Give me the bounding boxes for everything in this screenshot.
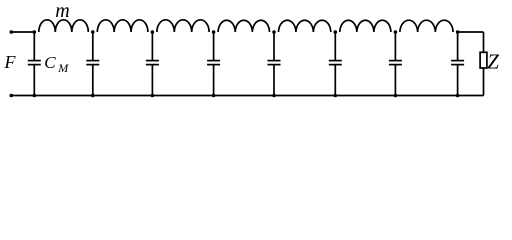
inductor L5 xyxy=(279,20,331,32)
svg-text:C: C xyxy=(44,53,56,72)
svg-text:m: m xyxy=(55,0,69,22)
capacitor C2 branch xyxy=(86,32,99,96)
inductor L2 xyxy=(97,20,148,32)
junction node 3 (top) xyxy=(151,30,155,34)
junction node 1 (top) xyxy=(33,30,37,34)
junction node 1 (bottom) xyxy=(33,94,37,98)
junction node 8 (bottom) xyxy=(456,94,460,98)
junction node 5 (top) xyxy=(272,30,276,34)
capacitor C_M branch xyxy=(28,32,41,96)
wire (Z branch upper) xyxy=(483,32,485,52)
capacitor C3 branch xyxy=(146,32,159,96)
wire (Z branch lower) xyxy=(483,68,485,96)
junction node 5 (bottom) xyxy=(272,94,276,98)
capacitor C6 branch xyxy=(329,32,342,96)
inductor L7 xyxy=(400,20,453,32)
junction node 7 (bottom) xyxy=(394,94,398,98)
inductor L6 xyxy=(340,20,391,32)
bottom-left terminal node xyxy=(10,94,14,98)
svg-text:Z: Z xyxy=(487,50,499,74)
junction node 2 (top) xyxy=(91,30,95,34)
capacitor C8 branch xyxy=(451,32,464,96)
capacitor C4 branch xyxy=(207,32,220,96)
inductor L3 xyxy=(157,20,209,32)
wire (top-right, node 8 to Z branch) xyxy=(458,31,484,33)
junction node 6 (bottom) xyxy=(334,94,338,98)
wire (top-left, F to node 1) xyxy=(11,31,34,33)
inductor L4 xyxy=(218,20,269,32)
junction node 4 (bottom) xyxy=(212,94,216,98)
junction node 4 (top) xyxy=(212,30,216,34)
junction node 3 (bottom) xyxy=(151,94,155,98)
junction node 8 (top) xyxy=(456,30,460,34)
capacitor C5 branch xyxy=(268,32,281,96)
impedance Z box xyxy=(480,52,487,68)
junction node 6 (top) xyxy=(334,30,338,34)
node F (top terminal) xyxy=(10,30,14,34)
inductor L1 xyxy=(39,20,89,32)
svg-text:F: F xyxy=(4,52,17,72)
junction node 2 (bottom) xyxy=(91,94,95,98)
svg-text:M: M xyxy=(57,61,69,75)
junction node 7 (top) xyxy=(394,30,398,34)
wire (bottom rail) xyxy=(11,95,483,97)
capacitor C7 branch xyxy=(389,32,402,96)
